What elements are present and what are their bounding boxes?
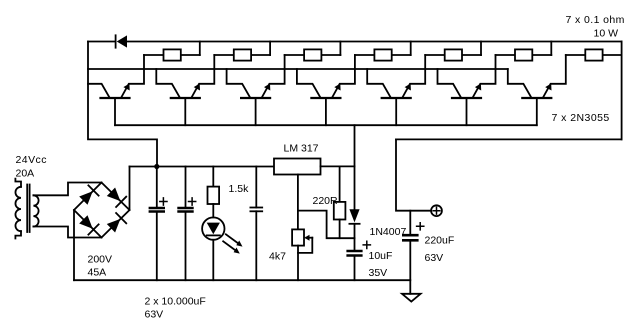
svg-text:200V: 200V [88, 253, 113, 265]
wire bridge + to raw rail [129, 167, 131, 211]
transistor Q2 2N3055 base bar [171, 97, 200, 99]
resistor R1 0.1 ohm leads [144, 54, 164, 56]
wire base rail to U1 output [354, 125, 356, 209]
svg-text:10uF: 10uF [369, 250, 393, 262]
transistor Q1 emitter lead [121, 55, 144, 98]
svg-text:35V: 35V [369, 267, 388, 279]
capacitor C2 10000uF upper lead [185, 167, 187, 207]
wire R5 to top rail [480, 42, 482, 56]
wire output drop to terminal [396, 139, 431, 210]
resistor R7 0.1 ohm leads [566, 54, 586, 56]
transistor Q4 emitter lead [332, 55, 355, 98]
transformer T1 core [26, 185, 28, 233]
transformer T1 primary top terminal [15, 179, 21, 187]
wire top output rail left segment [88, 41, 116, 43]
transistor Q1 emitter arrow [123, 84, 129, 91]
transformer T1 secondary winding [33, 195, 38, 226]
transistor Q7 2N3055 base bar [522, 97, 551, 99]
svg-text:20A: 20A [16, 168, 35, 180]
transistor Q6 collector lead [438, 69, 462, 98]
wire bridge - to ground rail [73, 210, 75, 280]
capacitor C5 lower lead [354, 257, 356, 281]
wire output rail [396, 138, 622, 140]
capacitor C5 + polarity mark [363, 241, 370, 248]
resistor R1 0.1 ohm body [164, 49, 181, 60]
transistor Q3 collector lead [227, 69, 251, 98]
resistor R6 0.1 ohm leads [496, 54, 516, 56]
resistor R4 0.1 ohm leads [355, 54, 375, 56]
transistor Q6 emitter arrow [475, 84, 481, 91]
resistor R5 0.1 ohm leads [425, 54, 445, 56]
wire C6 to ground [409, 242, 411, 294]
wire D7 to C5 [354, 224, 356, 250]
transistor Q3 emitter lead [262, 55, 285, 98]
svg-text:220uF: 220uF [425, 234, 455, 246]
bridge diamond [74, 183, 130, 238]
capacitor C3 lower lead [255, 211, 257, 280]
transistor Q1 collector lead [88, 84, 110, 98]
resistor 220R lower lead [339, 220, 341, 239]
diode D1 1N4007 reverse-protection (cathode bar) [115, 35, 117, 47]
potentiometer 4k7 body [292, 229, 304, 245]
resistor R5 0.1 ohm body [445, 49, 462, 60]
svg-text:220R: 220R [313, 195, 339, 207]
LED D6 cathode bar [207, 234, 220, 236]
wire U1 adj pin [297, 175, 299, 230]
LED D6 lower lead [212, 240, 214, 280]
transistor Q1 2N3055 base bar [101, 97, 130, 99]
capacitor C5 10uF plates [348, 250, 362, 253]
wire R6 to top rail [550, 42, 552, 56]
wire second rail (collectors) [88, 68, 508, 70]
wire 1.5k to LED [212, 204, 214, 217]
capacitor C6 220uF plates [403, 234, 417, 237]
resistor R2 0.1 ohm leads [214, 54, 234, 56]
svg-text:63V: 63V [145, 309, 164, 321]
transistor Q1 base lead [114, 98, 116, 125]
diode D7 cathode bar [349, 223, 359, 225]
transistor Q5 emitter lead [402, 55, 425, 98]
transformer T1 primary bottom terminal [15, 231, 21, 238]
resistor 1.5k body [208, 187, 220, 204]
capacitor C1 lower lead [156, 213, 158, 281]
transistor Q5 2N3055 base bar [382, 97, 411, 99]
potentiometer 4k7 lower lead [297, 246, 299, 281]
LED D6 light arrow 2 [223, 241, 237, 251]
transistor Q4 2N3055 base bar [311, 97, 340, 99]
wire adj net [298, 211, 355, 239]
transistor Q3 2N3055 base bar [241, 97, 270, 99]
output terminal + [431, 205, 442, 216]
LED D6 circle [202, 217, 224, 239]
wire R3 to top rail [339, 42, 341, 56]
transistor Q7 emitter arrow [545, 84, 551, 91]
transformer T1 primary winding [15, 187, 21, 231]
transistor Q4 collector lead [297, 69, 321, 98]
capacitor C2 lower lead [185, 213, 187, 281]
bridge diode D5 (bottom-to-right) [107, 219, 121, 233]
svg-text:10 W: 10 W [594, 28, 619, 40]
bridge diode D2 (left-to-top) [79, 191, 93, 205]
resistor 1.5k upper lead [212, 167, 214, 187]
ground symbol [402, 294, 421, 302]
transistor Q5 collector lead [367, 69, 391, 98]
resistor R2 0.1 ohm body [234, 49, 251, 60]
wire ground rail [74, 279, 410, 281]
transistor Q7 base lead [536, 98, 538, 125]
capacitor C1 + polarity mark [160, 198, 167, 205]
capacitor C6 + polarity mark [417, 223, 424, 230]
bridge diode D4 (left-to-bottom) [79, 215, 93, 229]
wire R2 to top rail [269, 42, 271, 56]
transistor Q5 emitter arrow [405, 84, 411, 91]
svg-text:24Vcc: 24Vcc [16, 154, 47, 166]
transistor Q6 emitter lead [473, 55, 496, 98]
svg-text:1N4007: 1N4007 [370, 226, 407, 238]
bridge diode D3 (top-to-right) [107, 188, 121, 202]
capacitor C2 plates [179, 207, 193, 210]
wire top output rail [127, 41, 622, 43]
LED D6 light arrow 1 [226, 234, 240, 244]
diode D7 1N4007 body [349, 209, 359, 222]
resistor 220R upper lead [339, 166, 341, 202]
svg-text:1.5k: 1.5k [229, 183, 250, 195]
wire right output bus [621, 42, 623, 140]
transistor Q3 emitter arrow [264, 84, 270, 91]
svg-text:4k7: 4k7 [269, 250, 286, 262]
wire R1 to top rail [199, 42, 201, 56]
transistor Q7 collector lead [508, 69, 532, 98]
transistor Q7 emitter lead [543, 55, 566, 98]
capacitor C3 upper lead [255, 167, 257, 208]
potentiometer 4k7 wiper [306, 237, 312, 239]
capacitor C2 + polarity mark [189, 198, 196, 205]
wire raw+ mid rail [130, 166, 275, 168]
capacitor C1 plates [150, 207, 164, 210]
wire U1 output pin [321, 165, 355, 167]
resistor R3 0.1 ohm body [304, 49, 321, 60]
diode D1 body [117, 35, 127, 47]
transistor Q6 base lead [466, 98, 468, 125]
transistor Q2 collector lead [156, 69, 180, 98]
wire R4 to top rail [410, 42, 412, 56]
transistor Q5 base lead [395, 98, 397, 125]
transistor Q2 base lead [184, 98, 186, 125]
resistor R3 0.1 ohm leads [285, 54, 305, 56]
resistor R4 0.1 ohm body [374, 49, 391, 60]
wire base rail [115, 124, 537, 126]
wire secondary bottom AC lead [33, 227, 101, 238]
svg-text:63V: 63V [425, 252, 444, 264]
svg-text:7 x 2N3055: 7 x 2N3055 [552, 112, 610, 124]
junction node raw+ [154, 164, 159, 169]
transistor Q2 emitter arrow [194, 84, 200, 91]
transistor Q4 base lead [325, 98, 327, 125]
svg-text:45A: 45A [88, 267, 107, 279]
transistor Q4 emitter arrow [334, 84, 340, 91]
LED D6 triangle [207, 223, 220, 235]
capacitor C3 plates [250, 207, 262, 209]
regulator U1 LM317 body [274, 159, 321, 175]
resistor R7 0.1 ohm body [585, 49, 602, 60]
transistor Q3 base lead [255, 98, 257, 125]
resistor 220R body [334, 202, 346, 220]
capacitor C1 10000uF upper lead [156, 167, 158, 207]
wire secondary top AC lead [33, 183, 101, 196]
transistor Q2 emitter lead [192, 55, 215, 98]
svg-text:LM 317: LM 317 [284, 142, 319, 154]
resistor R6 0.1 ohm body [515, 49, 532, 60]
capacitor C6 220uF lead [409, 211, 411, 234]
wire left raw+ bus [88, 42, 157, 167]
svg-text:7 x 0.1 ohm: 7 x 0.1 ohm [566, 14, 625, 26]
transistor Q6 2N3055 base bar [452, 97, 481, 99]
svg-text:2 x 10.000uF: 2 x 10.000uF [145, 295, 206, 307]
